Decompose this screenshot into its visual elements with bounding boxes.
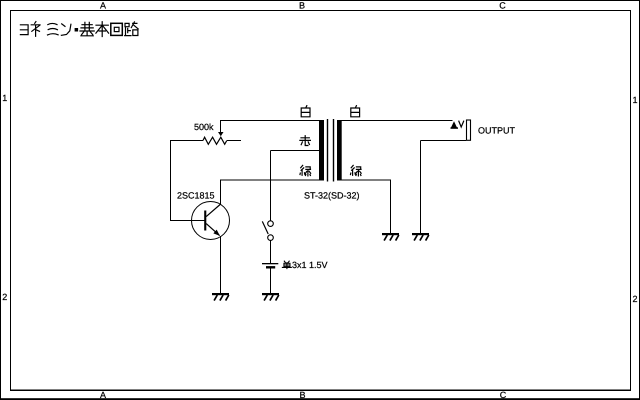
svg-text:C: C: [499, 1, 506, 11]
ground (battery): [262, 293, 279, 301]
wire collector to green tap: [221, 179, 320, 181]
label aka (red) left tap: [300, 136, 311, 146]
wire pot wiper vertical: [220, 120, 222, 132]
wire base lead: [170, 220, 205, 222]
ground (emitter): [212, 293, 229, 301]
label shiro (white) left tap: [301, 106, 310, 117]
svg-text:500k: 500k: [194, 122, 214, 132]
wire jack down: [420, 141, 422, 234]
wire top (white tap to pot wiper): [221, 120, 320, 122]
title kanji kai (circuit): [111, 23, 123, 35]
svg-text:2SC1815: 2SC1815: [177, 191, 215, 201]
wire right green down: [390, 180, 392, 234]
TITLE: [20, 22, 138, 37]
ground (transformer right): [382, 233, 399, 241]
svg-text:1: 1: [632, 95, 637, 105]
title katakana n: [61, 24, 71, 35]
output jack J1: [451, 121, 457, 128]
kanji labels: [300, 106, 361, 176]
title katakana yo: [20, 25, 28, 35]
wire pot-left down to base: [170, 140, 172, 220]
kanji tan (AA cell, battery size): [282, 261, 291, 269]
svg-text:OUTPUT: OUTPUT: [478, 125, 516, 135]
transformer T1 right winding bar: [337, 120, 342, 181]
wire battery down: [270, 269, 272, 294]
svg-text:B: B: [299, 390, 305, 400]
wire collector up: [220, 180, 222, 205]
title kanji ro (road): [125, 22, 139, 36]
title katakana mi: [48, 23, 59, 34]
wire jack sleeve: [421, 140, 467, 142]
wire switch to battery: [270, 240, 272, 263]
wire emitter down: [220, 236, 222, 293]
wire red tap: [271, 150, 320, 152]
svg-text:ST-32(SD-32): ST-32(SD-32): [304, 191, 360, 201]
resistor 500k (rheostat): [170, 140, 203, 142]
transformer core lines: [327, 119, 328, 182]
svg-text:2: 2: [2, 292, 7, 302]
wire right white tap: [341, 120, 453, 122]
title middle dot: [75, 28, 79, 32]
svg-text:2: 2: [632, 294, 637, 304]
svg-text:B: B: [299, 1, 305, 11]
label midori (green) left tap: [300, 165, 311, 176]
wire right green tap: [341, 179, 391, 181]
transistor Q1 2SC1815: [192, 202, 230, 240]
pot wiper arrow: [218, 132, 224, 136]
svg-text:3x1 1.5V: 3x1 1.5V: [292, 260, 328, 270]
switch S1: [268, 221, 274, 227]
title kanji ki (base): [80, 22, 94, 35]
svg-text:A: A: [100, 390, 106, 400]
transformer T1 left winding bar: [319, 120, 324, 181]
svg-text:A: A: [100, 1, 106, 11]
title katakana ne: [31, 22, 40, 37]
ground (output): [412, 233, 429, 241]
label shiro (white) right tap: [351, 106, 360, 117]
title kanji hon (book): [96, 22, 109, 37]
battery B1: [262, 263, 278, 264]
label midori (green) right tap: [351, 165, 362, 176]
svg-text:1: 1: [2, 93, 7, 103]
wire red tap down to switch: [270, 151, 272, 221]
svg-text:C: C: [500, 390, 507, 400]
